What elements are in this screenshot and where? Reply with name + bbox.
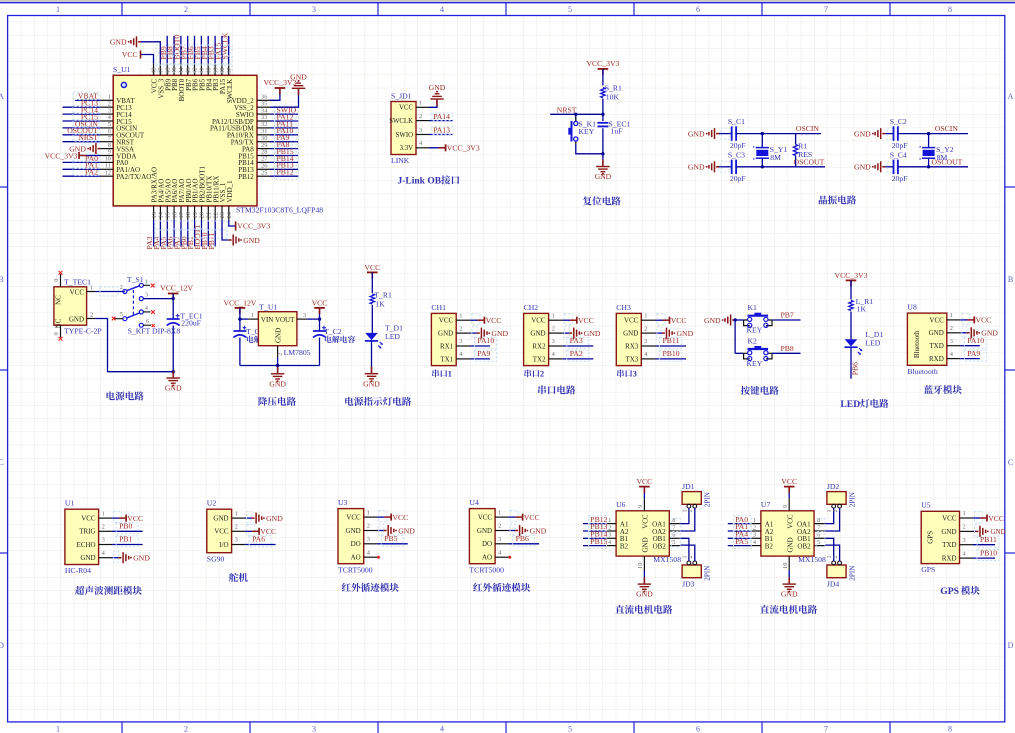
- svg-text:GND: GND: [854, 163, 871, 172]
- svg-text:VOUT: VOUT: [275, 316, 295, 324]
- pin 2 GND: [960, 530, 974, 532]
- pin 1: [832, 561, 836, 565]
- pin 4 AO: [495, 556, 509, 558]
- wire: [728, 545, 751, 547]
- connector JD1 2PIN: [682, 492, 701, 505]
- window top gray strip: [0, 0, 1015, 2]
- pin 3 B1: [751, 537, 761, 539]
- wire left rail: [240, 318, 248, 320]
- pin 15 PA5/AO: [166, 206, 168, 220]
- wire: [973, 530, 976, 532]
- wire: [825, 508, 833, 523]
- power VCC_3V3 at VDD_2: [270, 88, 280, 100]
- svg-text:1: 1: [644, 312, 647, 319]
- wire down to capacitor: [172, 299, 174, 319]
- svg-text:VCC: VCC: [346, 514, 361, 522]
- svg-text:TCRT5000: TCRT5000: [469, 565, 504, 574]
- svg-text:GND: GND: [786, 537, 794, 552]
- svg-text:2PIN: 2PIN: [848, 565, 856, 581]
- wire: [656, 332, 663, 334]
- svg-text:220uF: 220uF: [181, 319, 201, 328]
- connector U1 ultrasonic module body: [65, 509, 99, 564]
- power VCC: [252, 530, 259, 532]
- svg-text:GND: GND: [781, 590, 798, 599]
- svg-text:D: D: [1008, 641, 1014, 650]
- svg-text:VCC_3V3: VCC_3V3: [586, 59, 619, 68]
- microcontroller U1 STM32F103C8T6 body: [113, 75, 257, 206]
- pin 2 PC13: [100, 106, 113, 108]
- wire: [63, 120, 101, 122]
- pin 1 VCC: [495, 516, 509, 518]
- wire: [112, 517, 119, 519]
- wire: [470, 319, 477, 321]
- svg-text:0: 0: [53, 332, 60, 335]
- pin 2 GND: [364, 530, 378, 532]
- svg-text:VCC: VCC: [636, 477, 652, 486]
- svg-text:U6: U6: [616, 500, 626, 509]
- svg-text:C: C: [1008, 458, 1013, 467]
- wire: [656, 319, 663, 321]
- pin 9 VCC: [643, 498, 645, 510]
- title dianyuan dianlu: [107, 391, 115, 400]
- pin 6 OB1: [669, 537, 680, 539]
- power VCC_12V: [168, 293, 179, 295]
- pin 35 VSS_2: [257, 106, 270, 108]
- net label PA1: [73, 161, 99, 169]
- svg-text:VCC: VCC: [524, 513, 540, 522]
- pin 3 B1: [606, 537, 616, 539]
- svg-text:STM32F103C8T6_LQFP48: STM32F103C8T6_LQFP48: [236, 205, 323, 214]
- pin 1 A1: [751, 523, 761, 525]
- svg-text:JD4: JD4: [827, 580, 840, 589]
- wire: [245, 517, 252, 519]
- svg-text:5: 5: [120, 311, 123, 318]
- wire down to K2: [734, 320, 736, 353]
- ground: [384, 530, 387, 532]
- svg-text:GND: GND: [688, 130, 705, 139]
- svg-text:2PIN: 2PIN: [704, 565, 712, 581]
- svg-text:5: 5: [817, 539, 820, 546]
- svg-text:GND: GND: [642, 537, 650, 552]
- svg-text:8: 8: [948, 725, 952, 733]
- svg-text:2: 2: [120, 284, 123, 291]
- wire: [63, 168, 101, 170]
- svg-text:VCC_3V3: VCC_3V3: [835, 271, 868, 280]
- svg-text:20pF: 20pF: [892, 141, 908, 150]
- pin5 stub with no-connect: [114, 318, 123, 320]
- svg-text:VCC: VCC: [392, 513, 408, 522]
- net label PA10: [964, 337, 986, 348]
- wire / net label PA13: [429, 134, 452, 136]
- svg-text:2: 2: [963, 524, 966, 531]
- svg-text:4: 4: [440, 725, 444, 733]
- pin 3 DO: [495, 543, 509, 545]
- pin 4 B2: [606, 545, 616, 547]
- svg-text:KEY: KEY: [747, 326, 763, 335]
- net label PA2: [567, 350, 589, 361]
- title fuwei dianlu: [583, 196, 592, 205]
- svg-text:VCC_12V: VCC_12V: [160, 284, 193, 293]
- power VCC output: [314, 307, 325, 309]
- pin 41 PB5: [200, 63, 202, 75]
- pin 4 RXD: [947, 358, 961, 360]
- wire: [112, 557, 119, 559]
- svg-text:PA13: PA13: [433, 126, 450, 135]
- svg-text:CH2: CH2: [524, 303, 539, 312]
- pin 1 VCC: [416, 106, 429, 108]
- svg-text:U1: U1: [65, 499, 75, 508]
- pin 44 BOOT0: [180, 63, 182, 75]
- svg-text:HC-R04: HC-R04: [65, 566, 91, 575]
- svg-text:NC: NC: [55, 295, 63, 305]
- motor driver U6 MX1508 body: [616, 511, 669, 556]
- wire: [885, 166, 893, 168]
- wire: [194, 220, 196, 247]
- net label PA0: [733, 516, 751, 527]
- svg-text:B2: B2: [765, 543, 774, 551]
- svg-text:T_C2: T_C2: [324, 327, 342, 336]
- push button K1 KEY: [744, 320, 750, 326]
- selection artifacts: [816, 519, 825, 532]
- power VCC: [367, 271, 378, 273]
- svg-text:6: 6: [696, 5, 700, 14]
- svg-text:SWCLK: SWCLK: [226, 79, 234, 104]
- pin 25 PB12: [257, 175, 270, 177]
- svg-text:TCRT5000: TCRT5000: [338, 565, 373, 574]
- svg-text:3: 3: [963, 537, 966, 544]
- net label PA5: [733, 538, 751, 549]
- wire: [63, 134, 101, 136]
- connector U5 GPS module body: [921, 511, 959, 563]
- pin 3 I/O: [232, 544, 246, 546]
- ground (crystal row): [716, 166, 719, 168]
- svg-text:GND: GND: [243, 236, 260, 245]
- wire: [377, 543, 408, 545]
- pin 38 PA15: [221, 63, 223, 75]
- wire: [245, 544, 276, 546]
- wire: [583, 537, 606, 539]
- crystal branch wires: [928, 134, 930, 148]
- svg-text:2: 2: [459, 325, 462, 332]
- net label VBAT: [73, 92, 99, 100]
- net label PA10: [474, 337, 496, 348]
- svg-text:GND: GND: [477, 527, 492, 535]
- svg-text:GND: GND: [854, 130, 871, 139]
- svg-text:TX2: TX2: [533, 355, 546, 363]
- wire: [200, 36, 202, 63]
- pin 2 A2: [606, 530, 616, 532]
- power VCC at pin 48: [141, 55, 154, 64]
- wire: [270, 168, 298, 170]
- svg-text:20pF: 20pF: [730, 141, 746, 150]
- pin4 stub with no-connect: [143, 311, 150, 313]
- svg-text:1: 1: [367, 509, 370, 516]
- pin 1 VBAT: [100, 99, 113, 101]
- pin 26 PB13: [257, 168, 270, 170]
- pin 4 RXD: [960, 557, 974, 559]
- svg-text:GND: GND: [275, 328, 283, 343]
- svg-text:3: 3: [235, 537, 238, 544]
- svg-text:20pF: 20pF: [892, 174, 908, 183]
- svg-text:VCC_3V3: VCC_3V3: [447, 144, 480, 153]
- svg-text:GND: GND: [290, 73, 307, 82]
- svg-text:2: 2: [184, 5, 188, 14]
- wire: [728, 530, 751, 532]
- svg-text:PA10: PA10: [967, 336, 984, 345]
- pin 4 TX1: [456, 358, 470, 360]
- ground: [602, 160, 604, 167]
- net label PB0: [116, 523, 138, 534]
- wire: [509, 530, 515, 532]
- pin 27 PB14: [257, 161, 270, 163]
- wire: [270, 148, 298, 150]
- svg-text:VCC: VCC: [486, 316, 502, 325]
- svg-text:VCC: VCC: [624, 317, 639, 325]
- pin 2 GND: [495, 530, 509, 532]
- wire: [166, 36, 168, 63]
- svg-text:2: 2: [688, 510, 694, 513]
- wire: [563, 332, 570, 334]
- svg-text:D: D: [0, 641, 4, 650]
- svg-text:5: 5: [672, 539, 675, 546]
- selection artifacts top pins: [156, 45, 232, 53]
- svg-text:LM7805: LM7805: [284, 348, 311, 357]
- svg-text:PA6: PA6: [252, 535, 265, 544]
- svg-text:GND: GND: [133, 554, 150, 563]
- wire: [201, 220, 203, 247]
- net label PA6: [249, 536, 271, 547]
- svg-text:2: 2: [277, 353, 284, 356]
- capacitor T_C1 body: [239, 319, 241, 331]
- svg-text:Bluetooth: Bluetooth: [913, 330, 921, 358]
- wire: [728, 523, 751, 525]
- svg-text:2: 2: [950, 325, 953, 332]
- wire: [602, 128, 604, 166]
- wire: [270, 127, 298, 129]
- connector U8 bluetooth module body: [907, 313, 946, 365]
- LED T_D1: [365, 333, 378, 340]
- wire: [719, 133, 732, 135]
- regulator T_U1 LM7805 body: [258, 312, 297, 346]
- net label PC13: [73, 99, 99, 107]
- svg-text:3: 3: [552, 338, 555, 345]
- power VCC: [663, 319, 670, 321]
- svg-text:SWIO: SWIO: [396, 132, 413, 139]
- wire: [898, 133, 968, 135]
- LED L_D1: [845, 339, 858, 346]
- zone tick marks sides: [0, 186, 8, 188]
- pin 1 VCC: [456, 319, 470, 321]
- title lanya mokuai: [924, 385, 933, 394]
- wire: [656, 358, 687, 360]
- pin 2: [693, 504, 697, 508]
- wire: [825, 508, 839, 531]
- power VCC: [980, 517, 987, 519]
- svg-text:NRST: NRST: [557, 105, 577, 114]
- svg-text:PA3: PA3: [570, 336, 583, 345]
- ground at VSS_1: [222, 220, 229, 240]
- svg-text:TX3: TX3: [625, 355, 638, 363]
- svg-text:PB10: PB10: [980, 548, 997, 557]
- svg-text:I/O: I/O: [219, 541, 228, 549]
- svg-text:VCC: VCC: [942, 514, 957, 522]
- svg-text:12: 12: [105, 169, 111, 176]
- wire pin3 to VCC_12V node: [143, 298, 173, 300]
- connector JD3 2PIN: [682, 565, 701, 578]
- svg-text:MX1508: MX1508: [653, 555, 681, 564]
- pin 13 PA3/RX/AO: [153, 206, 155, 220]
- pin 3 ECHO: [99, 544, 113, 546]
- pin 4 PC15: [100, 120, 113, 122]
- net label PB1: [116, 536, 138, 547]
- pin 2 SWCLK: [416, 120, 429, 122]
- wire: [270, 155, 298, 157]
- switch blades: [127, 286, 140, 291]
- svg-text:GND: GND: [941, 528, 956, 536]
- wire: [187, 36, 189, 63]
- pin 9 VDDA: [100, 155, 113, 157]
- wire: [63, 175, 101, 177]
- wire to key: [575, 114, 577, 119]
- svg-text:RX3: RX3: [625, 342, 639, 350]
- net label PA4: [733, 531, 751, 542]
- svg-text:VCC: VCC: [70, 288, 85, 296]
- svg-text:K1: K1: [748, 303, 758, 312]
- svg-text:C: C: [0, 458, 4, 467]
- capacitor S_C4 20pF: [893, 160, 895, 175]
- svg-text:3: 3: [753, 532, 756, 539]
- pin 30 PA9/TX: [257, 141, 270, 143]
- svg-text:GPS: GPS: [927, 531, 935, 544]
- net label PB12: [589, 516, 607, 527]
- svg-text:K2: K2: [748, 336, 758, 345]
- svg-text:U7: U7: [761, 500, 771, 509]
- power VCC: [788, 488, 790, 499]
- svg-text:9: 9: [637, 505, 644, 508]
- pin 5 OB2: [669, 545, 680, 547]
- resistor S_R1 10K: [601, 88, 605, 98]
- svg-text:NRST: NRST: [78, 133, 98, 142]
- capacitor T_EC1 220uF: [167, 318, 180, 320]
- power VCC: [570, 319, 577, 321]
- wire from key to bottom: [576, 144, 603, 153]
- wire: [509, 516, 516, 518]
- wire: [681, 508, 695, 531]
- pin 9 VCC: [788, 498, 790, 510]
- net label PB10: [660, 350, 682, 361]
- zone tick marks bottom: [121, 722, 123, 733]
- svg-text:S_JD1: S_JD1: [391, 92, 412, 101]
- svg-text:0: 0: [53, 279, 60, 282]
- svg-text:1: 1: [90, 284, 93, 291]
- svg-text:3: 3: [419, 127, 422, 134]
- wire: [63, 127, 101, 129]
- svg-text:KEY: KEY: [747, 359, 763, 368]
- pin 28 PB15: [257, 155, 270, 157]
- svg-text:2PIN: 2PIN: [848, 491, 856, 507]
- svg-text:3: 3: [950, 338, 953, 345]
- pin 6 OSCOUT: [100, 134, 113, 136]
- power VCC_3V3: [846, 279, 857, 281]
- wire: [207, 220, 209, 247]
- svg-text:GND: GND: [584, 329, 601, 338]
- pin 4 GND: [99, 557, 113, 559]
- svg-text:PA9: PA9: [967, 349, 980, 358]
- net label PA0: [73, 154, 99, 162]
- wire: [825, 538, 833, 561]
- title jiangya dianlu: [259, 397, 268, 406]
- svg-text:1K: 1K: [375, 299, 385, 308]
- svg-text:TXD: TXD: [929, 342, 943, 350]
- pin 2 GND: [277, 346, 279, 358]
- title jingzhen dianlu: [819, 195, 827, 204]
- ground at pin1: [429, 99, 437, 107]
- svg-text:VCC_3V3: VCC_3V3: [237, 222, 270, 231]
- zone tick marks top: [121, 3, 123, 16]
- svg-text:LED: LED: [840, 399, 860, 410]
- svg-text:RX1: RX1: [440, 342, 454, 350]
- wire: [470, 345, 490, 347]
- wire: [63, 113, 101, 115]
- svg-text:1: 1: [552, 312, 555, 319]
- pin 1 VIN: [248, 318, 258, 320]
- svg-text:2: 2: [540, 370, 544, 379]
- pin 7 NRST: [100, 141, 113, 143]
- pin 2: [693, 561, 697, 565]
- NC pin top: [60, 274, 62, 287]
- svg-text:JD3: JD3: [682, 580, 695, 589]
- net label PA10: [275, 127, 299, 138]
- pin 4 B2: [751, 545, 761, 547]
- svg-text:GND: GND: [530, 330, 545, 338]
- pin 3 DO: [364, 543, 378, 545]
- net label PB13: [275, 162, 299, 173]
- net label PC15: [73, 113, 99, 121]
- pin 1: [687, 504, 691, 508]
- ground: [976, 530, 979, 532]
- svg-text:TYPE-C-2P: TYPE-C-2P: [64, 326, 102, 335]
- svg-text:VCC: VCC: [988, 514, 1004, 523]
- svg-text:T_U1: T_U1: [259, 303, 277, 312]
- pin 3 RX3: [641, 345, 655, 347]
- svg-text:1: 1: [419, 100, 422, 107]
- selection artifacts bottom pins: [155, 221, 227, 229]
- title zhiliu dianji dianlu: [615, 605, 624, 614]
- ground (crystal row): [882, 133, 885, 135]
- pin 8 VSSA: [100, 148, 113, 150]
- svg-text:PB5: PB5: [384, 534, 397, 543]
- net label PB11: [660, 337, 682, 348]
- wire: [960, 358, 980, 360]
- svg-text:3: 3: [102, 537, 105, 544]
- wire: [214, 36, 216, 63]
- svg-text:A: A: [0, 92, 4, 101]
- pin 1 VCC: [99, 517, 113, 519]
- svg-text:4: 4: [440, 5, 444, 14]
- wire: [960, 332, 967, 334]
- pin 18 PB0/AO: [187, 206, 189, 220]
- svg-text:1: 1: [498, 509, 501, 516]
- pin 36 VDD_2: [257, 99, 270, 101]
- ground at pin 47 VSS_3: [141, 42, 160, 63]
- svg-text:VCC: VCC: [399, 105, 413, 112]
- pin 34 SWIO: [257, 113, 270, 115]
- svg-text:GND: GND: [346, 527, 361, 535]
- svg-text:A: A: [1008, 92, 1014, 101]
- svg-text:S_C3: S_C3: [728, 150, 745, 159]
- svg-text:2: 2: [833, 510, 839, 513]
- wire: [377, 516, 384, 518]
